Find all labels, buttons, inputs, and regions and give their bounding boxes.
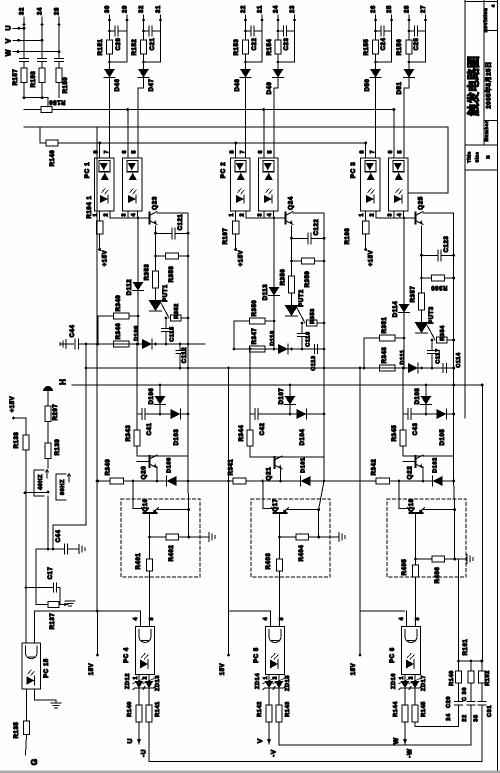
svg-text:R341: R341 — [229, 459, 235, 476]
svg-text:2: 2 — [240, 214, 246, 217]
svg-text:R360: R360 — [431, 284, 448, 290]
svg-text:C41: C41 — [147, 423, 153, 436]
svg-text:C44: C44 — [56, 530, 62, 543]
svg-text:D112: D112 — [127, 279, 133, 295]
svg-text:PC 3: PC 3 — [350, 162, 357, 179]
svg-text:4: 4 — [397, 214, 403, 217]
svg-text:PC 15: PC 15 — [44, 658, 50, 678]
svg-text:R342: R342 — [372, 459, 378, 476]
svg-text:D107: D107 — [279, 388, 285, 405]
svg-text:D108: D108 — [415, 388, 421, 405]
svg-text:C31: C31 — [487, 705, 493, 717]
svg-text:C20: C20 — [116, 38, 122, 51]
svg-text:R149: R149 — [50, 150, 56, 167]
svg-text:Q23: Q23 — [152, 196, 159, 210]
svg-text:ZD12: ZD12 — [125, 673, 131, 689]
svg-text:G: G — [29, 758, 39, 765]
svg-text:C121: C121 — [178, 214, 184, 231]
svg-text:Q22: Q22 — [407, 466, 414, 480]
svg-text:Q16: Q16 — [143, 498, 149, 511]
svg-text:C116: C116 — [306, 331, 312, 346]
svg-text:R138: R138 — [14, 432, 20, 449]
svg-text:R159: R159 — [63, 77, 69, 94]
svg-text:D46: D46 — [115, 79, 121, 92]
svg-text:PC 5: PC 5 — [254, 647, 260, 663]
svg-text:Q20: Q20 — [141, 466, 148, 480]
svg-text:C22: C22 — [252, 38, 258, 51]
svg-text:D113: D113 — [263, 284, 269, 300]
svg-text:D106: D106 — [149, 388, 155, 405]
svg-text:C117: C117 — [436, 348, 442, 363]
svg-text:R150: R150 — [49, 99, 66, 105]
svg-text:D102: D102 — [433, 457, 439, 473]
svg-text:-V: -V — [271, 749, 278, 757]
svg-text:2: 2 — [370, 214, 376, 217]
svg-text:B: B — [486, 155, 492, 159]
svg-text:PC 2: PC 2 — [220, 162, 227, 179]
svg-text:D110: D110 — [270, 330, 276, 345]
svg-text:R353: R353 — [310, 308, 316, 324]
svg-text:22: 22 — [462, 714, 468, 721]
svg-text:R162: R162 — [485, 670, 491, 686]
svg-text:C43: C43 — [413, 423, 419, 436]
svg-text:+15V: +15V — [103, 250, 109, 267]
svg-text:PC 4: PC 4 — [124, 647, 130, 663]
svg-text:PUT3: PUT3 — [429, 306, 435, 324]
svg-text:D51: D51 — [397, 82, 403, 95]
svg-text:-W: -W — [407, 748, 414, 758]
svg-text:D103: D103 — [174, 429, 180, 446]
svg-text:+15V: +15V — [10, 396, 16, 413]
svg-text:-U: -U — [141, 749, 148, 757]
svg-text:R194 1: R194 1 — [87, 195, 93, 218]
svg-text:R157: R157 — [13, 69, 19, 86]
svg-text:29: 29 — [123, 5, 129, 13]
svg-text:D105: D105 — [440, 429, 446, 446]
svg-text:W: W — [6, 49, 13, 56]
svg-text:3: 3 — [279, 618, 285, 621]
svg-text:R404: R404 — [299, 545, 305, 562]
svg-text:R405: R405 — [402, 559, 408, 576]
svg-text:21: 21 — [258, 5, 264, 13]
svg-text:32: 32 — [139, 5, 145, 13]
svg-text:27: 27 — [421, 5, 427, 13]
svg-text:R198: R198 — [345, 228, 351, 245]
svg-text:V: V — [257, 738, 264, 743]
svg-text:28: 28 — [55, 7, 61, 15]
svg-text:C114: C114 — [456, 352, 462, 368]
svg-text:R352: R352 — [174, 303, 180, 319]
svg-text:R151: R151 — [98, 39, 104, 56]
svg-text:C25: C25 — [414, 38, 420, 51]
svg-text:R347: R347 — [252, 328, 258, 345]
svg-text:3: 3 — [149, 618, 155, 621]
svg-text:C23: C23 — [284, 38, 290, 51]
svg-text:4: 4 — [399, 618, 405, 621]
svg-text:R343: R343 — [126, 425, 132, 442]
svg-text:Q18: Q18 — [409, 498, 415, 511]
svg-text:25: 25 — [387, 5, 393, 13]
svg-text:C123: C123 — [444, 236, 450, 253]
svg-text:7: 7 — [370, 151, 376, 154]
svg-text:C113: C113 — [311, 355, 317, 370]
svg-text:R155: R155 — [364, 39, 370, 56]
svg-text:15V: 15V — [89, 663, 95, 675]
svg-text:Revision: Revision — [483, 8, 489, 33]
svg-text:R350: R350 — [252, 300, 258, 317]
svg-text:R351: R351 — [382, 317, 388, 334]
svg-text:C42: C42 — [260, 423, 266, 436]
svg-text:R135: R135 — [14, 722, 20, 739]
svg-text:R161: R161 — [463, 639, 469, 656]
svg-text:6: 6 — [122, 151, 128, 154]
svg-text:R197: R197 — [223, 228, 229, 245]
svg-text:5: 5 — [267, 151, 273, 154]
svg-text:1: 1 — [399, 676, 405, 679]
svg-text:8: 8 — [360, 151, 366, 154]
svg-text:D104: D104 — [300, 429, 306, 446]
svg-text:Title: Title — [467, 151, 472, 163]
svg-text:R152: R152 — [132, 39, 138, 56]
svg-text:R402: R402 — [169, 545, 175, 562]
svg-text:PC 1: PC 1 — [84, 162, 91, 179]
svg-text:1: 1 — [359, 214, 365, 217]
svg-text:4: 4 — [131, 214, 137, 217]
svg-text:8: 8 — [230, 151, 236, 154]
svg-text:D50: D50 — [365, 79, 371, 92]
svg-text:R140: R140 — [127, 701, 133, 717]
svg-text:D47: D47 — [149, 79, 155, 92]
svg-text:R145: R145 — [421, 701, 427, 717]
svg-text:23: 23 — [290, 5, 296, 13]
svg-text:Q17: Q17 — [273, 498, 279, 511]
svg-text:R140: R140 — [449, 670, 455, 686]
svg-text:C17: C17 — [48, 567, 54, 580]
svg-text:U: U — [6, 25, 13, 30]
svg-text:Size: Size — [475, 152, 480, 163]
svg-text:R403: R403 — [266, 553, 272, 570]
svg-text:D48: D48 — [235, 79, 241, 92]
svg-text:R153: R153 — [234, 39, 240, 56]
svg-text:R142: R142 — [257, 701, 263, 717]
svg-text:24: 24 — [274, 5, 280, 13]
svg-text:ZD15: ZD15 — [285, 675, 291, 691]
svg-text:R348: R348 — [382, 347, 388, 364]
svg-text:R141: R141 — [155, 701, 161, 717]
svg-text:15V: 15V — [220, 663, 226, 675]
svg-text:30: 30 — [474, 714, 480, 721]
svg-text:7: 7 — [240, 151, 246, 154]
svg-text:R143: R143 — [285, 701, 291, 717]
svg-text:4: 4 — [263, 618, 269, 621]
svg-text:R345: R345 — [392, 425, 398, 442]
svg-text:ZD16: ZD16 — [391, 673, 397, 689]
svg-text:触发电路图: 触发电路图 — [466, 56, 481, 116]
svg-text:C29: C29 — [446, 696, 452, 708]
svg-text:R356: R356 — [281, 269, 287, 286]
svg-text:R354: R354 — [440, 325, 446, 341]
svg-text:R144: R144 — [393, 701, 399, 717]
svg-text:R346: R346 — [116, 323, 122, 340]
svg-text:24: 24 — [446, 713, 452, 721]
svg-text:R297: R297 — [53, 404, 59, 421]
svg-text:H: H — [59, 379, 68, 385]
svg-text:3: 3 — [122, 214, 128, 217]
svg-text:PUT1: PUT1 — [163, 284, 169, 302]
svg-text:D101: D101 — [301, 457, 307, 473]
svg-text:40HZ: 40HZ — [38, 474, 44, 490]
svg-text:R357: R357 — [411, 286, 417, 303]
svg-text:5: 5 — [131, 151, 137, 154]
svg-text:R401: R401 — [136, 553, 142, 570]
svg-text:6: 6 — [258, 151, 264, 154]
svg-text:C122: C122 — [314, 219, 320, 236]
svg-text:C44: C44 — [70, 325, 76, 338]
svg-text:D100: D100 — [167, 457, 173, 473]
svg-text:U: U — [127, 738, 134, 743]
svg-text:Q24: Q24 — [288, 196, 295, 210]
svg-text:3: 3 — [388, 214, 394, 217]
svg-text:V: V — [6, 38, 13, 43]
svg-text:6: 6 — [388, 151, 394, 154]
svg-text:R344: R344 — [239, 425, 245, 442]
svg-text:D109: D109 — [134, 325, 140, 341]
svg-text:PUT2: PUT2 — [299, 289, 305, 307]
svg-text:R349: R349 — [116, 295, 122, 312]
svg-text:R358: R358 — [169, 266, 175, 283]
svg-text:C21: C21 — [150, 38, 156, 51]
svg-text:D111: D111 — [400, 349, 406, 364]
svg-text:R139: R139 — [55, 439, 61, 456]
svg-text:R158: R158 — [31, 71, 37, 88]
svg-text:15V: 15V — [351, 663, 357, 675]
svg-text:1: 1 — [263, 676, 269, 679]
svg-text:Q25: Q25 — [418, 196, 425, 210]
svg-text:28: 28 — [405, 5, 411, 13]
svg-text:D49: D49 — [267, 82, 273, 95]
svg-text:R154: R154 — [267, 39, 273, 56]
svg-text:26: 26 — [371, 5, 377, 13]
svg-text:R137: R137 — [50, 613, 56, 630]
svg-text:24: 24 — [38, 7, 44, 15]
svg-text:5: 5 — [397, 151, 403, 154]
svg-text:W: W — [393, 737, 400, 744]
svg-text:C115: C115 — [170, 326, 176, 341]
svg-text:60HZ: 60HZ — [60, 479, 66, 495]
svg-text:ZD17: ZD17 — [421, 675, 427, 691]
svg-text:3: 3 — [415, 618, 421, 621]
svg-text:4: 4 — [133, 618, 139, 621]
svg-text:31: 31 — [156, 5, 162, 13]
svg-text:Q21: Q21 — [266, 467, 273, 481]
svg-text:1: 1 — [229, 214, 235, 217]
svg-text:R156: R156 — [397, 39, 403, 56]
svg-text:1: 1 — [93, 214, 99, 217]
svg-text:R359: R359 — [305, 271, 311, 288]
svg-text:PC 6: PC 6 — [390, 647, 396, 663]
svg-text:C112: C112 — [182, 347, 188, 363]
svg-text:D114: D114 — [393, 301, 399, 317]
svg-text:3: 3 — [258, 214, 264, 217]
svg-text:30: 30 — [105, 5, 111, 13]
svg-text:4: 4 — [267, 214, 273, 217]
svg-text:R353: R353 — [145, 264, 151, 281]
svg-text:R340: R340 — [106, 459, 112, 476]
svg-text:+15V: +15V — [239, 250, 245, 267]
svg-text:2: 2 — [104, 214, 110, 217]
svg-text:C 30: C 30 — [462, 687, 468, 701]
svg-text:R406: R406 — [435, 567, 441, 584]
svg-text:+15V: +15V — [369, 250, 375, 267]
svg-text:ZD13: ZD13 — [155, 675, 161, 691]
svg-text:Number: Number — [484, 121, 489, 142]
svg-text:22: 22 — [241, 5, 247, 13]
svg-text:1: 1 — [133, 676, 139, 679]
svg-text:ZD14: ZD14 — [255, 673, 261, 689]
svg-text:C24: C24 — [381, 38, 387, 51]
svg-text:2005年5月25日: 2005年5月25日 — [485, 61, 493, 108]
svg-text:32: 32 — [20, 7, 26, 15]
svg-text:7: 7 — [104, 151, 110, 154]
